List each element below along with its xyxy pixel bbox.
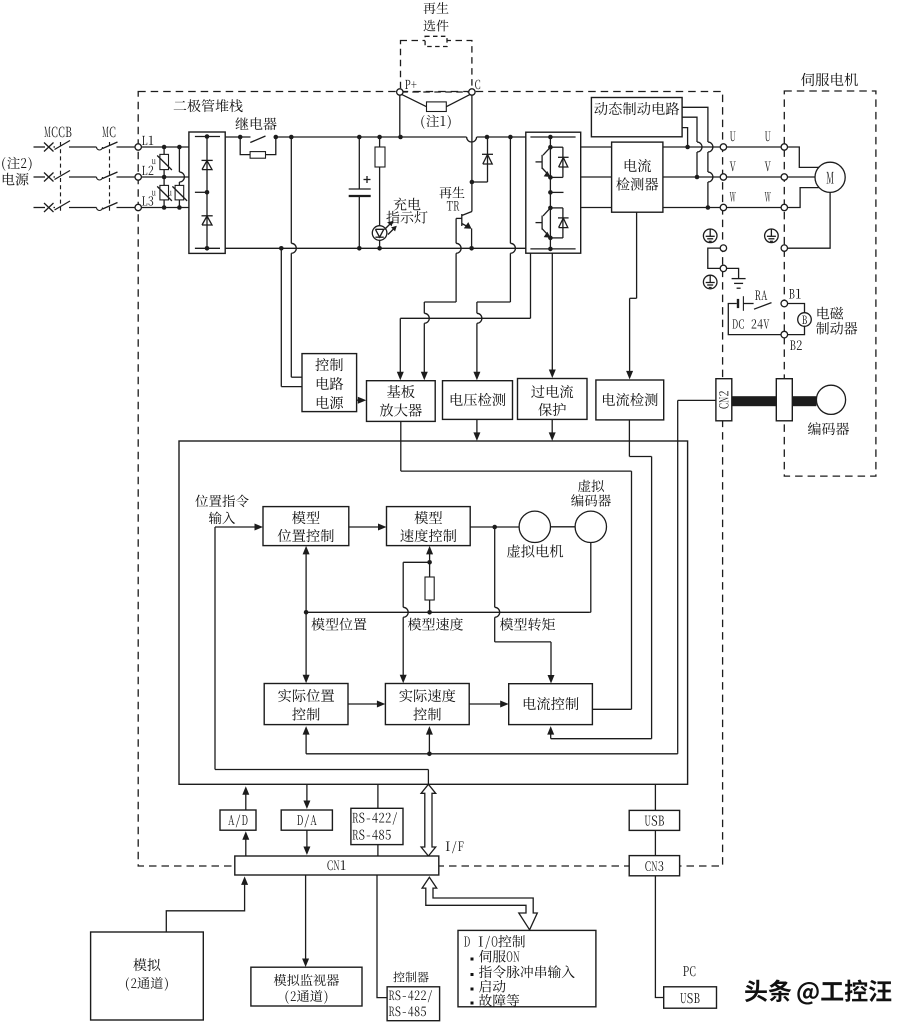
block 控制电路电源 box [302, 354, 357, 412]
text 位置指令 输入 label [195, 495, 248, 525]
block 过电流保护 box [518, 379, 588, 420]
relay contact [250, 136, 265, 143]
block 基板放大器 box [367, 381, 436, 422]
resistor model speed filter [425, 562, 434, 612]
contactor MC pole L1 [97, 142, 136, 150]
wire position command input [215, 524, 263, 770]
terminal U motor side [781, 144, 787, 150]
contactor MC pole L3 [97, 203, 136, 211]
resistor regen external (注1) [402, 95, 470, 112]
battery DC24V and relay RA [728, 296, 781, 334]
arrow model position up into model pos control [303, 546, 310, 612]
servo motor dashed border [784, 91, 876, 476]
wire TR base drive [421, 218, 462, 380]
wire U into motor [788, 147, 819, 167]
breaker MCCB pole L3 [54, 201, 97, 210]
wire P bus to voltage detector [473, 137, 515, 380]
text 虚拟电机 label [507, 544, 563, 557]
text 再生选件 label [423, 2, 448, 31]
arrow actual speed to current control [469, 701, 509, 708]
wire A/D column [242, 786, 249, 856]
text PC label [683, 966, 695, 976]
text 二极管堆栈 label [174, 99, 243, 112]
text C label [475, 80, 480, 90]
text watermark 头条@工控汪 [745, 980, 891, 1005]
terminal PE motor [781, 245, 787, 251]
varistor RV1 L1-L2 [157, 147, 172, 177]
terminal V amp side [720, 174, 726, 180]
wire relay P to control power supply [291, 137, 302, 377]
text 再生 TR label [439, 187, 464, 211]
text MC label [102, 127, 115, 138]
wire base amp output down [401, 421, 632, 471]
wire virtual motor to virtual encoder [551, 526, 576, 528]
terminal PE amp [720, 245, 726, 251]
wire W amp to motor [727, 207, 782, 209]
text DC 24V label [733, 319, 770, 329]
fuse X mark L1 [44, 143, 54, 152]
transistor TR regen [462, 212, 472, 249]
wire L1 into rectifier [141, 146, 189, 148]
arrow model speed node into model speed control [426, 546, 433, 565]
wire V into motor [788, 176, 816, 178]
block D I/O control box [458, 930, 596, 1006]
encoder cable thick 2 [792, 396, 816, 406]
text L1 L2 L3 labels [142, 136, 153, 206]
breaker MCCB pole L2 [54, 171, 97, 180]
wire D/A column [303, 784, 310, 855]
text CN2 rotated [719, 391, 729, 409]
wire mains L2 lead-in [34, 176, 46, 178]
wire CN1 to analog monitor [302, 875, 309, 967]
virtual motor circle [519, 511, 550, 542]
block 电流控制 box [509, 684, 593, 725]
relay bypass resistor [240, 137, 276, 158]
text P+ label [405, 80, 416, 89]
contactor MC pole L2 [97, 172, 136, 180]
regen option dashed box [401, 36, 472, 92]
encoder connector box [776, 379, 792, 421]
contactor gang dashed link [109, 142, 111, 213]
junction dots on P bus [238, 135, 513, 140]
wire brake to V phase [682, 117, 702, 179]
wire CN3 to PC USB [655, 876, 663, 998]
fuse X mark L2 [44, 173, 54, 182]
wire brake to U phase [682, 128, 690, 150]
terminal W amp side [720, 204, 726, 210]
wire N bus [225, 247, 526, 249]
terminal V motor side [781, 174, 787, 180]
wire current control output to base amp loop [592, 471, 631, 709]
brake coil B [788, 304, 812, 335]
wire model torque to current control [495, 527, 555, 684]
text 电流检测器 [616, 159, 658, 191]
text UVW amp labels [730, 132, 736, 202]
varistor RV3 L1-L3 with hop over L2 [172, 147, 187, 208]
wire current detector to current detect block [626, 212, 637, 379]
wire mains L1 lead-in [34, 146, 46, 148]
block 模拟 box [91, 932, 204, 1020]
wire analog input to CN1 [166, 876, 248, 932]
wire model feedback bus [304, 610, 590, 615]
block RS-422/RS-485 box upper [351, 808, 403, 844]
block 模型速度控制 box [387, 507, 471, 546]
junction dots varistor taps [162, 145, 182, 210]
block 电压检测 box [443, 381, 513, 420]
motor M circle [815, 162, 845, 192]
wire USB column [654, 784, 656, 855]
wire V phase [581, 176, 721, 178]
wire IGBT emitter sense to overcurrent [549, 253, 556, 378]
wire virtual encoder feedback down [590, 543, 591, 613]
text capacitor plus sign [364, 176, 371, 183]
IGBT module internals upper arm [530, 135, 575, 249]
text 充电指示灯 label [386, 198, 427, 224]
text 模型位置 label [311, 618, 366, 631]
wire W phase [581, 207, 721, 209]
wire mains L3 lead-in [34, 207, 46, 209]
text 模型速度 label [408, 618, 463, 631]
wire CN1 to controller RS [377, 875, 387, 998]
encoder circle [816, 385, 845, 414]
text 虚拟编码器 label [571, 480, 611, 507]
wire N bus to control power supply [281, 248, 302, 386]
PE symbol amp upper [703, 229, 717, 243]
IGBT module internals lower arm [530, 190, 575, 251]
open arrow CN1 to DIO [422, 877, 537, 930]
wire model speed to actual speed control [400, 562, 430, 683]
text 继电器 label [235, 117, 276, 130]
text 编码器 label [808, 422, 849, 435]
connector CN2 box [716, 379, 732, 421]
arrow overcurrent into control [549, 419, 556, 441]
terminal W motor side [781, 204, 787, 210]
block D/A box [281, 810, 332, 830]
capacitor C1 electrolytic [349, 137, 371, 248]
junction dots on N bus [279, 246, 474, 251]
PE symbol amp lower [703, 275, 717, 289]
wire U amp to motor [727, 146, 782, 148]
arrow control power to base amp [357, 397, 367, 404]
wire motor frame to ground terminal [788, 192, 831, 248]
block USB box upper [629, 810, 679, 830]
breaker gang dashed link [60, 142, 62, 213]
wire PE link and earth [708, 248, 746, 288]
wire internal IF bus [215, 770, 428, 785]
block USB box lower [664, 987, 717, 1008]
block A/D box [220, 810, 256, 830]
arrow model pos to model speed [349, 524, 387, 531]
text B2 label [790, 340, 802, 350]
wire C terminal to collector [471, 95, 473, 212]
PE symbol motor [765, 229, 779, 243]
terminal B1 [781, 300, 788, 307]
wire model speed to virtual motor [470, 525, 519, 530]
arrow actual pos to actual speed [348, 701, 385, 708]
breaker MCCB pole L1 [54, 141, 97, 150]
block 实际速度控制 box [385, 684, 469, 725]
block 实际位置控制 box [264, 684, 348, 725]
block 电流检测 box [596, 380, 664, 420]
text 控制器 label [393, 971, 428, 982]
wire CN2 to control (encoder feedback) [678, 400, 716, 753]
text I/F label [446, 841, 464, 853]
control system outer box [179, 441, 688, 784]
rectifier internals [195, 134, 220, 250]
open arrow I/F CN1 [421, 784, 436, 856]
wire encoder feedback to actual controls [303, 726, 678, 756]
wire V amp to motor [727, 176, 782, 178]
wire U phase [581, 146, 721, 148]
wire IGBT gate drive to base amp [397, 253, 531, 380]
wire current detect feedback [547, 420, 651, 739]
arrow voltage detect into control [473, 419, 480, 441]
text 动态制动电路 [594, 102, 679, 115]
block RS-422/RS-485 box lower [387, 987, 440, 1021]
terminal U amp side [720, 144, 726, 150]
block 模型位置控制 box [263, 507, 349, 546]
terminal P+ [397, 89, 403, 137]
IGBT module box [526, 132, 581, 253]
connector CN1 box [235, 856, 439, 875]
wire RS-422 column [377, 784, 379, 856]
virtual encoder circle [575, 511, 606, 542]
text 伺服电机 label [801, 73, 858, 86]
fuse X mark L3 [44, 203, 54, 212]
diode flyback regen [470, 137, 493, 184]
text varistor u labels [152, 159, 172, 195]
varistor RV2 L2-L3 [157, 177, 172, 208]
wire model position down into actual pos control [303, 612, 310, 683]
text RA label [755, 290, 767, 300]
terminal C [469, 89, 475, 95]
text B1 label [789, 289, 801, 299]
text source label (注2) 电源 [2, 157, 31, 186]
wire W into motor [788, 188, 819, 208]
block 动态制动电路 box [591, 98, 682, 137]
block 电流检测器 box [612, 142, 663, 212]
text (注1) label [421, 115, 450, 129]
servo amplifier dashed border [138, 92, 722, 867]
LED light arrows [385, 221, 397, 235]
terminal circles on left border L1 L2 L3 [135, 144, 141, 211]
wire L2 into rectifier [141, 176, 189, 178]
text MCCB label [44, 127, 71, 138]
resistor charge R [375, 137, 385, 226]
terminal B2 [781, 331, 788, 338]
block 模拟监视器 box [251, 967, 362, 1006]
connector CN3 box [629, 856, 679, 876]
wire brake to W phase [682, 107, 713, 210]
rectifier diode stack box [189, 132, 225, 253]
wire L3 into rectifier [141, 207, 189, 209]
text UVW motor labels [765, 132, 771, 202]
wire P bus relay to IGBT with hop at C line [276, 137, 526, 142]
wire P bus rectifier to relay [225, 136, 250, 138]
text 模型转矩 label [500, 618, 555, 631]
text 电磁制动器 label [816, 307, 857, 335]
LED charge indicator [372, 226, 387, 249]
encoder cable thick [732, 396, 777, 406]
